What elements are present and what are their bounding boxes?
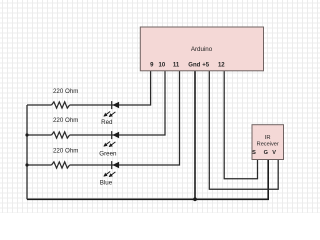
svg-text:220 Ohm: 220 Ohm: [53, 117, 78, 124]
wire: left ground return bus x=27: [26, 105, 28, 199]
wire: +5 pin down, right, up to IR V pin: [209, 71, 278, 189]
svg-text:Receiver: Receiver: [257, 142, 279, 148]
svg-text:11: 11: [173, 62, 180, 68]
wire: pin 12 down, right, up to IR S pin: [224, 71, 257, 179]
svg-text:G: G: [264, 150, 268, 156]
svg-text:+5: +5: [202, 62, 210, 68]
wire: row 2 Green LED row y=135, to pin 10: [27, 71, 165, 135]
LED D3 Blue: [100, 161, 119, 186]
svg-text:Red: Red: [101, 119, 113, 126]
junction node: Gnd bottom bus: [193, 197, 197, 201]
LED D1 Red: [101, 101, 119, 126]
svg-text:Blue: Blue: [100, 179, 113, 186]
svg-text:Green: Green: [99, 150, 117, 157]
svg-text:12: 12: [218, 62, 225, 68]
svg-text:220 Ohm: 220 Ohm: [53, 148, 78, 155]
IR Receiver U2: [252, 125, 284, 160]
junction node: bus / blue row: [25, 163, 28, 166]
svg-text:Arduino: Arduino: [191, 46, 213, 53]
LED D2 Green: [99, 131, 119, 157]
svg-text:V: V: [272, 150, 276, 156]
svg-text:220 Ohm: 220 Ohm: [53, 88, 78, 95]
svg-text:10: 10: [159, 62, 166, 68]
resistor R3 220 Ohm: [52, 148, 79, 169]
wire: row 3 Blue LED row y=165, to pin 11: [27, 71, 180, 165]
wire: row 1 Red LED row y=105, to pin 9: [27, 71, 151, 105]
resistor R1 220 Ohm: [52, 88, 79, 108]
resistor R2 220 Ohm: [52, 117, 79, 138]
Arduino U1: [140, 27, 263, 71]
junction node: bus / green row: [25, 133, 28, 136]
wire: Gnd net (thick) pin Gnd down, bottom bus, up to IR G pin: [27, 71, 268, 199]
svg-text:Gnd: Gnd: [188, 62, 200, 68]
svg-text:IR: IR: [265, 135, 271, 141]
svg-text:S: S: [252, 150, 256, 156]
